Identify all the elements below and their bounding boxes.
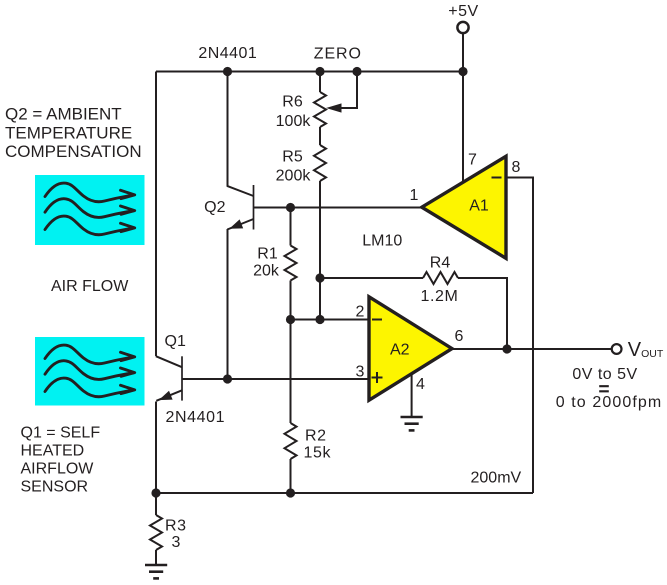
svg-text:HEATED: HEATED [21, 443, 85, 460]
svg-text:1: 1 [410, 187, 419, 204]
wire bottom rail [156, 492, 533, 494]
airflow box lower [35, 337, 145, 406]
node dot top rail / Q2 collector [223, 67, 232, 76]
svg-text:R6: R6 [282, 94, 303, 111]
svg-text:4: 4 [416, 376, 425, 393]
svg-text:ZERO: ZERO [314, 46, 362, 63]
transistor Q2 base bar [253, 185, 255, 230]
node dot top rail / R6 [315, 67, 324, 76]
op-amp A2 [369, 297, 452, 400]
svg-text:8: 8 [512, 159, 521, 176]
wire R5 bottom to pin2 node [319, 181, 321, 320]
transistor Q2 emitter arrowhead [229, 219, 243, 228]
node dot bottom rail / R2 [286, 488, 295, 497]
resistor R6 100k potentiometer [314, 92, 326, 127]
airflow box upper [35, 175, 145, 245]
svg-text:R4: R4 [430, 255, 451, 272]
node dot Q1 base / Q2 emitter [223, 374, 232, 383]
wire R1 top [290, 208, 292, 246]
wire R3 bottom to ground [155, 550, 157, 565]
wire R2 bottom [290, 459, 292, 493]
transistor Q1 emitter arrowhead [159, 391, 173, 400]
svg-text:2N4401: 2N4401 [198, 45, 257, 62]
svg-text:3: 3 [172, 534, 181, 551]
wire top rail [156, 71, 463, 73]
wire R4 right to output node [458, 278, 507, 349]
svg-text:7: 7 [468, 152, 477, 169]
svg-text:Q1 = SELF: Q1 = SELF [21, 425, 101, 442]
svg-text:3: 3 [356, 363, 365, 380]
svg-text:SENSOR: SENSOR [21, 479, 89, 496]
wire Q2 collector vertical [227, 72, 229, 187]
transistor Q2 emitter diagonal [227, 219, 253, 230]
svg-text:R1: R1 [257, 246, 278, 263]
wiper arrowhead [326, 103, 342, 112]
svg-text:Q2 = AMBIENT: Q2 = AMBIENT [5, 105, 122, 124]
op-amp A2 plus sign [372, 372, 383, 383]
terminal VOUT [612, 344, 622, 354]
op-amp A1 minus sign [492, 177, 502, 179]
node dot top rail / wiper [352, 67, 361, 76]
svg-text:Q1: Q1 [165, 333, 186, 350]
svg-text:R3: R3 [165, 518, 187, 535]
svg-text:0 to 2000fpm: 0 to 2000fpm [556, 394, 663, 411]
wire pin 2 input of A2 [291, 319, 370, 321]
svg-text:Q2: Q2 [204, 199, 225, 216]
resistor R1 20k [285, 246, 297, 281]
wire R1 bottom through pin2 node down to R2 [290, 281, 292, 424]
svg-text:LM10: LM10 [362, 232, 402, 249]
svg-text:AIR FLOW: AIR FLOW [51, 278, 129, 295]
wire Q2 emitter down to Q1 base node [227, 229, 229, 379]
resistor R2 15k [285, 423, 297, 459]
svg-text:200k: 200k [276, 168, 312, 185]
node dot output / R4 [502, 344, 511, 353]
op-amp A2 minus sign [372, 319, 382, 321]
transistor Q1 base bar [181, 356, 183, 400]
svg-text:2: 2 [356, 304, 365, 321]
node dot R1 bottom / pin2 wire [286, 315, 295, 324]
node dot bottom rail / R3 [151, 488, 160, 497]
svg-text:R2: R2 [305, 428, 327, 445]
svg-text:1.2M: 1.2M [421, 288, 459, 305]
svg-text:20k: 20k [253, 262, 280, 279]
wire left rail (Q1 collector feed) [155, 72, 157, 357]
wire pin 3 input of A2 from Q1 base [182, 378, 369, 380]
svg-text:15k: 15k [304, 445, 332, 462]
wire A2 pin 4 to ground [411, 374, 413, 416]
resistor R5 200k [314, 145, 326, 181]
svg-text:6: 6 [455, 328, 464, 345]
svg-text:200mV: 200mV [471, 470, 522, 487]
wire Q1 emitter down to bottom rail [155, 402, 157, 494]
svg-text:COMPENSATION: COMPENSATION [5, 142, 142, 161]
wire R6-R5 link [319, 127, 321, 145]
svg-text:+5V: +5V [448, 3, 478, 20]
label equals [599, 386, 609, 391]
ground for R3 [145, 565, 167, 578]
svg-text:R5: R5 [282, 149, 303, 166]
resistor R3 3 [150, 515, 162, 550]
svg-text:TEMPERATURE: TEMPERATURE [5, 123, 132, 142]
svg-text:A1: A1 [469, 198, 489, 215]
wire A2 output to VOUT terminal [453, 348, 612, 350]
terminal +5V [457, 22, 468, 33]
transistor Q1 emitter diagonal [156, 390, 182, 401]
transistor Q1 collector diagonal [156, 356, 182, 367]
wire R4 left branch [320, 277, 423, 279]
svg-text:2N4401: 2N4401 [166, 409, 226, 426]
wire R6 top [319, 72, 321, 93]
node dot top rail / +5V [458, 67, 467, 76]
svg-text:0V to 5V: 0V to 5V [572, 366, 637, 383]
wire R3 top [155, 493, 157, 515]
airflow arrows lower [45, 345, 135, 397]
node dot pin2 wire / R5 line [315, 315, 324, 324]
wire A1 pin 8 feedback [506, 178, 533, 494]
svg-text:AIRFLOW: AIRFLOW [21, 461, 95, 478]
svg-text:100k: 100k [276, 113, 312, 130]
wire +5V stem to pin 7 of A1 [462, 34, 464, 183]
svg-text:A2: A2 [390, 342, 410, 359]
airflow arrows upper [45, 183, 135, 235]
transistor Q2 collector diagonal [227, 186, 254, 196]
op-amp A1 [422, 156, 506, 258]
wire base node to A1 pin 1 [254, 207, 422, 209]
wire potentiometer wiper [341, 72, 357, 109]
ground for A2 pin 4 [401, 417, 423, 430]
node dot base node / R1 [286, 203, 295, 212]
resistor R4 1.2M [423, 272, 458, 284]
node dot R5 bottom / R4 branch [315, 273, 324, 282]
